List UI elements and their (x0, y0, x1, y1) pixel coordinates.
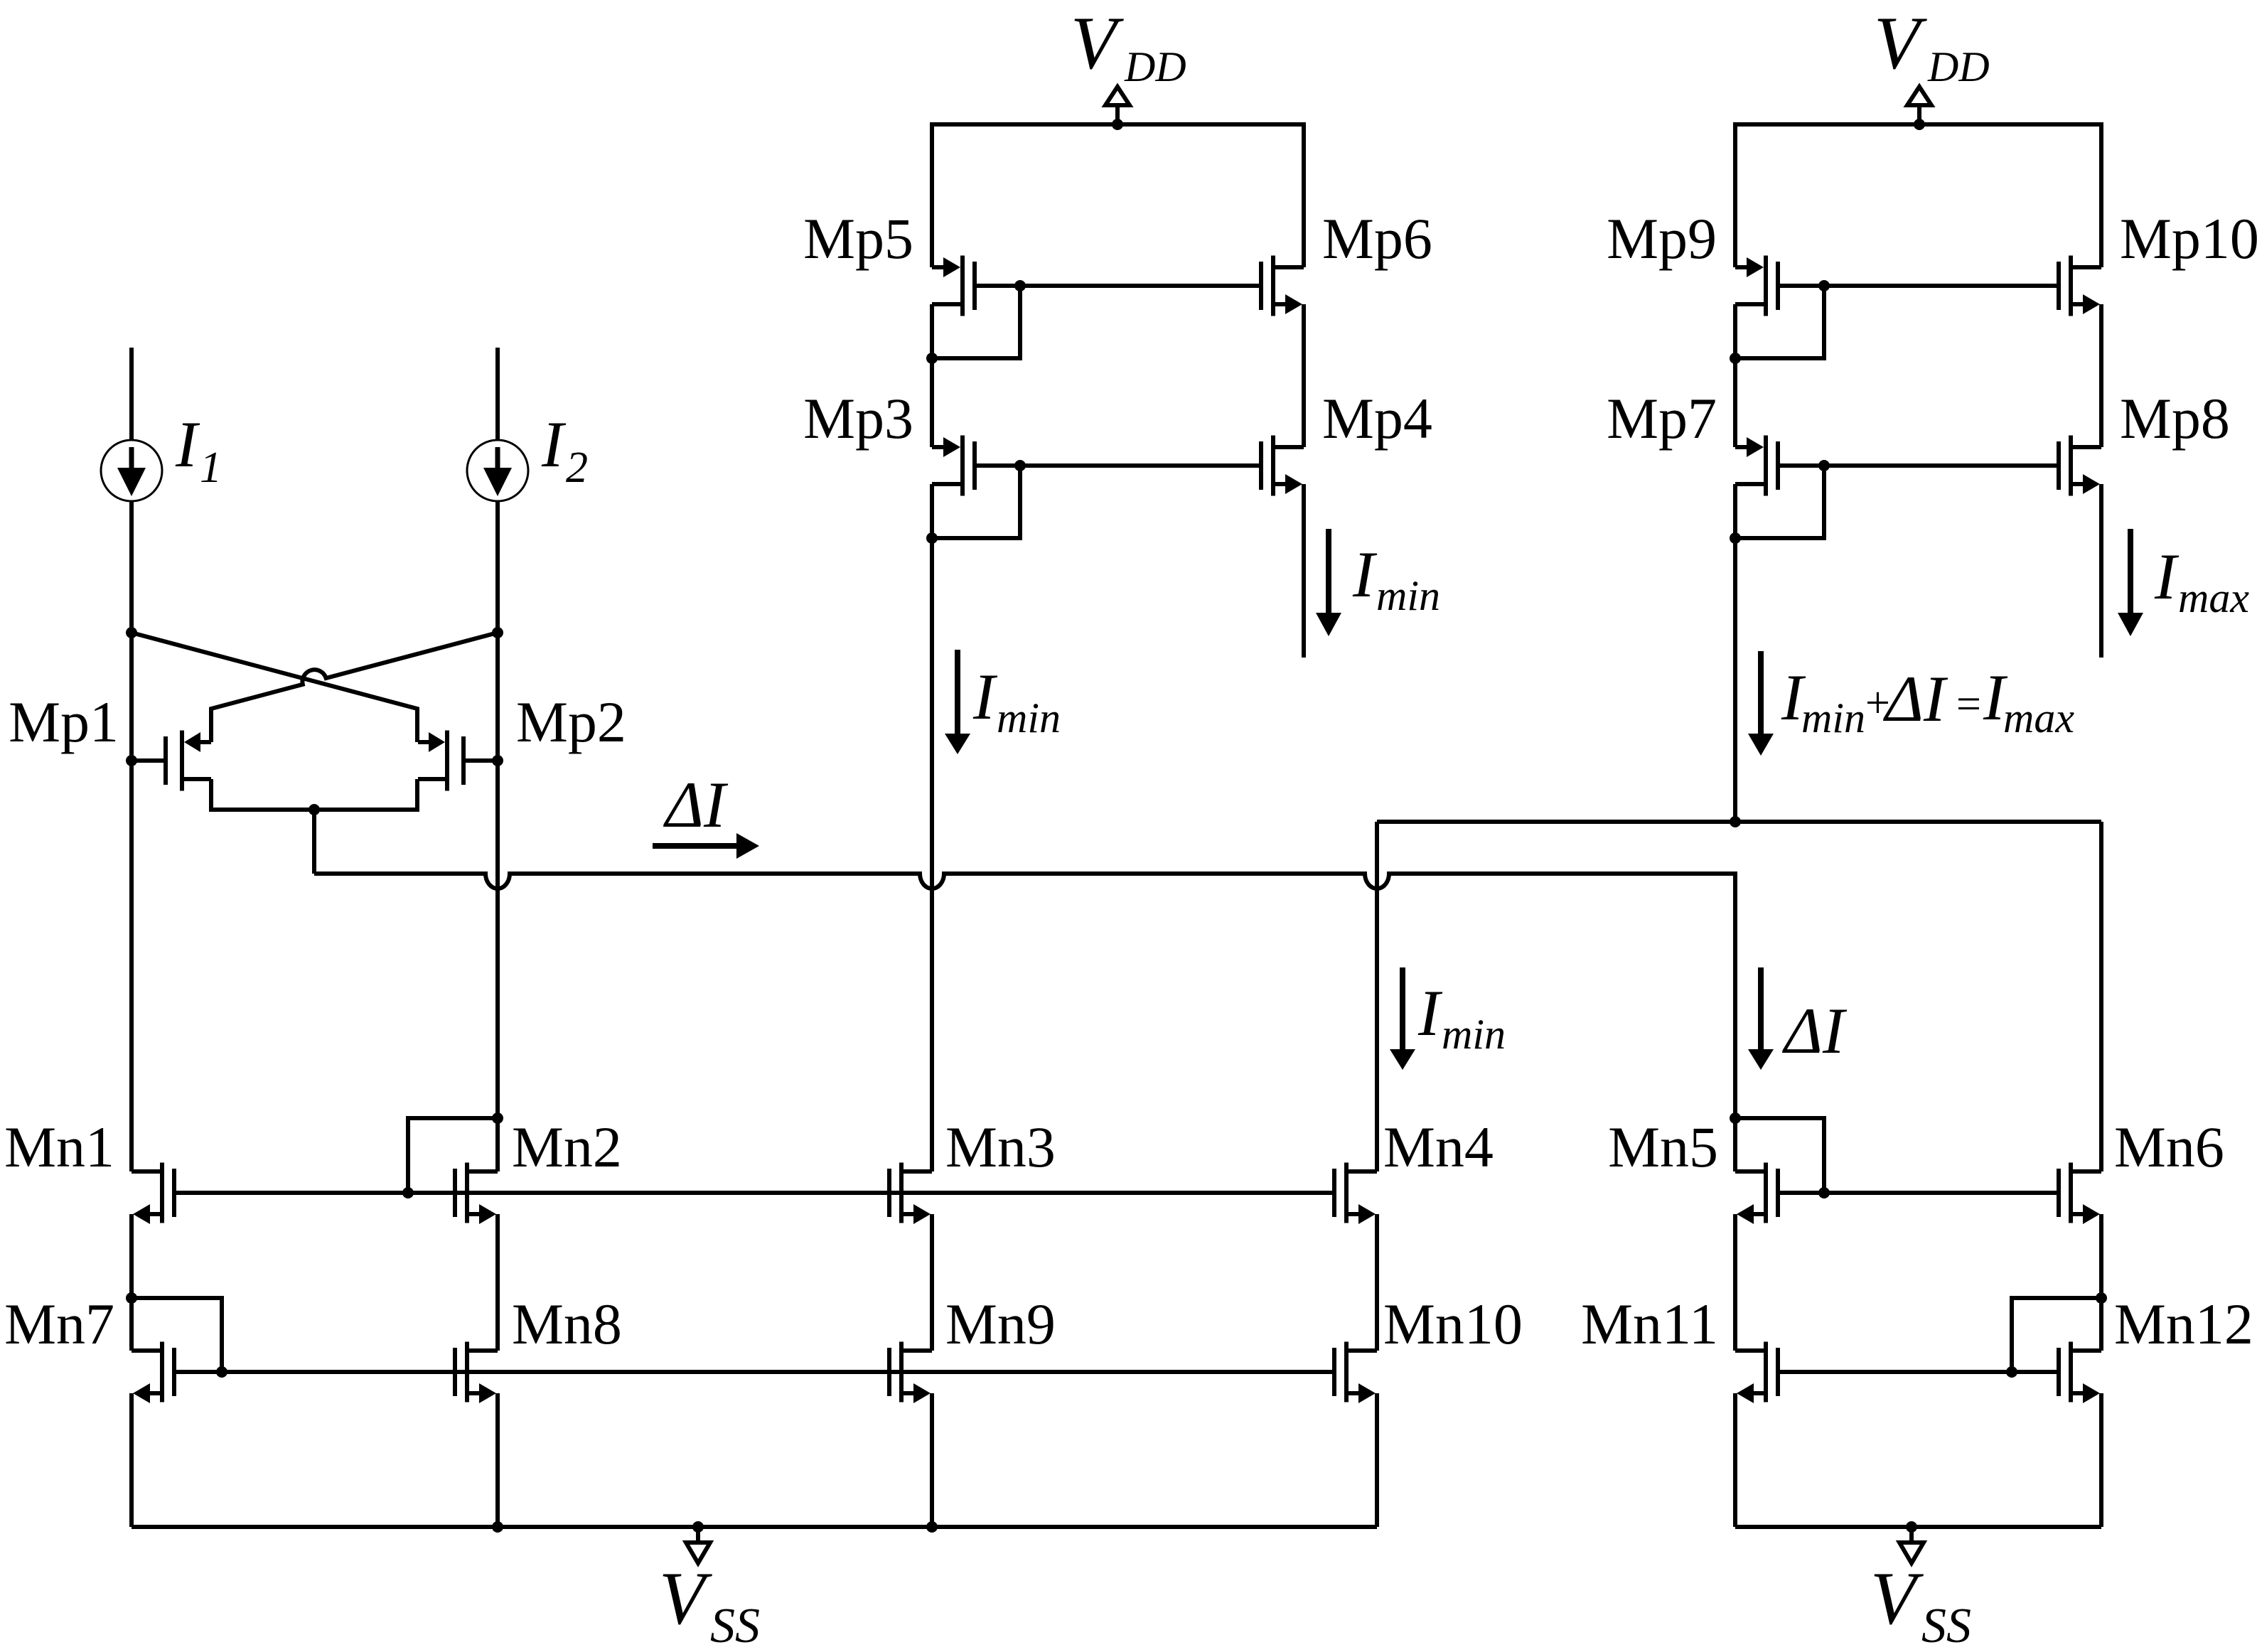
junction dot Imax bus / Mp7 drain (1730, 816, 1741, 827)
svg-text:ΔI: ΔI (1781, 994, 1848, 1067)
transistor Mn1 (132, 1163, 174, 1225)
svg-text:V: V (1874, 1, 1927, 85)
wire Mp7 drain to Imax bus (1733, 484, 1737, 822)
wire Mn11-Mn12 gate bus (1778, 1370, 2059, 1374)
junction dot VDD right (1914, 119, 1925, 130)
label VDD middle (1071, 1, 1186, 90)
label I1 (175, 408, 222, 492)
svg-text:Mn6: Mn6 (2114, 1115, 2224, 1179)
junction dot Mp7 drain (1730, 532, 1741, 544)
wire Mn11 source to VSS rail (1733, 1393, 1737, 1527)
transistor Mn11 (1735, 1342, 1778, 1404)
svg-text:Mp6: Mp6 (1322, 206, 1432, 271)
svg-text:SS: SS (1921, 1599, 1971, 1652)
svg-text:Mp9: Mp9 (1607, 206, 1717, 271)
junction dot Mn2 gate bus (402, 1187, 414, 1198)
svg-text:1: 1 (200, 444, 222, 492)
svg-text:Mn12: Mn12 (2114, 1292, 2253, 1356)
wire Mp7 diode connection (1735, 466, 1824, 538)
svg-text:Mp4: Mp4 (1322, 386, 1432, 451)
power VDD rail (right) (1735, 124, 2101, 267)
wire Mn2 source to Mn8 drain (495, 1214, 500, 1351)
svg-text:Mn9: Mn9 (945, 1292, 1056, 1356)
transistor Mn9 (889, 1342, 932, 1404)
wire I1 column down to Mn1 drain (129, 501, 134, 1171)
svg-text:Mp1: Mp1 (9, 690, 119, 754)
transistor Mp4 (1261, 436, 1304, 496)
wire Mn5 source to Mn11 drain (1733, 1214, 1737, 1351)
wire Imax bus drop to Mn4 (1375, 822, 1379, 1171)
wire Mp5 diode connection (932, 286, 1020, 358)
transistor Mp2 (418, 731, 498, 791)
label VSS right (1870, 1557, 1971, 1652)
power VDD symbol (right) (1907, 87, 1931, 124)
junction dot Mn12 diode (2096, 1292, 2107, 1304)
arrow Imin at Mn4 (1390, 967, 1415, 1070)
svg-text:Mn7: Mn7 (4, 1292, 114, 1356)
svg-text:Mn5: Mn5 (1608, 1115, 1718, 1179)
svg-text:=: = (1953, 680, 1983, 729)
arrow Imin at Mp4 (1316, 529, 1341, 636)
wire Mp6 drain to Mp4 source (1302, 304, 1306, 447)
wire Mn3 source to Mn9 drain (930, 1214, 934, 1351)
label Imin middle (972, 660, 1061, 741)
wire Mp7-Mp8 gate bus (1778, 463, 2059, 468)
transistor Mp5 (932, 256, 975, 316)
transistor Mp1 (132, 731, 211, 791)
junction dot Mn5 drain (1730, 1112, 1741, 1124)
junction dot Mn5 gate bus (1818, 1187, 1830, 1198)
svg-text:Mn3: Mn3 (945, 1115, 1056, 1179)
label I2 (541, 408, 588, 492)
arrow Imax (2118, 529, 2143, 636)
transistor Mn4 (1334, 1163, 1377, 1225)
wire Mn12 diode connection (2012, 1298, 2101, 1372)
svg-text:Mn11: Mn11 (1581, 1292, 1718, 1356)
wire Mn1 source to Mn7 drain (129, 1214, 134, 1351)
svg-text:I: I (541, 408, 567, 481)
svg-text:Mn1: Mn1 (4, 1115, 114, 1179)
label Imin at Mp4 (1352, 538, 1440, 619)
wire Mp1 source to I2 node (with hop) (211, 633, 498, 742)
svg-text:V: V (1071, 1, 1124, 85)
transistor Mp8 (2059, 436, 2101, 496)
wire VSS rail left (132, 1525, 1377, 1529)
wire Mn10 source to VSS rail (1375, 1393, 1379, 1527)
junction dot Mn7 diode (126, 1292, 137, 1304)
junction dot VDD middle (1112, 119, 1123, 130)
svg-text:Mp10: Mp10 (2120, 206, 2257, 271)
wire Mn2 diode connection (408, 1118, 498, 1193)
transistor Mp10 (2059, 256, 2101, 316)
arrow Delta-I (653, 833, 759, 859)
wire Mp3 diode connection (932, 466, 1020, 538)
wire Imin column Mp3 to Mn3 (930, 484, 934, 1171)
current source I2 (467, 440, 528, 501)
svg-text:DD: DD (1927, 43, 1990, 90)
junction dot Mp5 drain (926, 353, 938, 364)
svg-text:V: V (659, 1557, 712, 1640)
svg-text:min: min (997, 694, 1061, 741)
arrow Imin+DI=Imax (1748, 651, 1774, 756)
transistor Mp7 (1735, 436, 1778, 496)
wire Mp2 drain to join (314, 779, 417, 810)
wire Mn5-Mn6 gate bus (1778, 1191, 2059, 1195)
wire Mn5 diode connection (1735, 1118, 1824, 1193)
wire Mp1 drain to join (211, 779, 314, 810)
ground VSS symbol right (1899, 1527, 1924, 1563)
wire Mn9 source to VSS rail (930, 1393, 934, 1527)
wire Mp9-Mp10 gate bus (1778, 284, 2059, 288)
svg-text:Mn2: Mn2 (512, 1115, 622, 1179)
wire I2 column down to Mn2 drain (495, 501, 500, 1171)
wire Mp5-Mp6 gate bus (975, 284, 1261, 288)
label Imin+DI=Imax (1781, 661, 2074, 741)
wire Mp3-Mp4 gate bus (975, 463, 1261, 468)
label Delta-I with arrow (663, 768, 729, 841)
current source I1 (101, 440, 162, 501)
svg-text:2: 2 (566, 444, 588, 492)
svg-text:max: max (2178, 574, 2249, 621)
wire Mn12 source to VSS rail (2099, 1393, 2103, 1527)
junction dot VSS stub right (1906, 1521, 1917, 1533)
svg-text:Mp2: Mp2 (516, 690, 626, 754)
svg-text:SS: SS (710, 1599, 760, 1652)
label VDD right (1874, 1, 1990, 90)
wire Mp10 drain to Mp8 source (2099, 304, 2103, 447)
wire Imax bus drop to Mn6 (2099, 822, 2103, 1171)
node dot Mp2 gate (492, 755, 503, 766)
wire Mp2 source to I1 node (132, 633, 417, 742)
wire I2 input stub (495, 348, 500, 440)
svg-text:I: I (175, 408, 200, 481)
wire Mn7-Mn10 gate bus (174, 1370, 1334, 1374)
transistor Mp6 (1261, 256, 1304, 316)
wire I1 input stub (129, 348, 134, 440)
svg-text:Mn4: Mn4 (1383, 1115, 1494, 1179)
wire VSS rail right (1735, 1525, 2101, 1529)
svg-text:min: min (1442, 1011, 1506, 1058)
wire Mp8 drain output Imax (2099, 484, 2103, 658)
svg-text:V: V (1870, 1557, 1924, 1640)
arrow Imin middle (945, 650, 970, 754)
svg-text:Mn10: Mn10 (1383, 1292, 1523, 1356)
junction dot drain join (309, 804, 320, 815)
wire Mn7 source to VSS rail (129, 1393, 134, 1527)
junction dot Mp7 gate node (1818, 460, 1830, 471)
junction dot Mn9 rail (926, 1521, 938, 1533)
power VDD symbol (middle) (1105, 87, 1130, 124)
wire Mn1-Mn4 gate bus (174, 1191, 1334, 1195)
junction dot Mp9 gate node (1818, 280, 1830, 291)
transistor Mp3 (932, 436, 975, 496)
svg-text:Mp8: Mp8 (2120, 386, 2230, 451)
wire Delta-I bus with hops, down to Mn5 (314, 874, 1735, 1171)
transistor Mn3 (889, 1163, 932, 1225)
wire join drop to Delta-I bus (312, 810, 316, 874)
svg-text:min: min (1376, 572, 1440, 619)
svg-text:I: I (2154, 540, 2180, 613)
transistor Mn10 (1334, 1342, 1377, 1404)
junction dot Mp3 gate node (1014, 460, 1026, 471)
svg-text:Mn8: Mn8 (512, 1292, 622, 1356)
junction dot Mn12 gate bus (2006, 1366, 2017, 1378)
wire Mn7 diode connection (132, 1298, 222, 1372)
junction dot Mn7 gate bus (216, 1366, 227, 1378)
node dot I2/cross-couple (492, 627, 503, 638)
wire Mp4 drain output (1302, 484, 1306, 658)
svg-text:I: I (1352, 538, 1378, 611)
transistor Mn6 (2059, 1163, 2101, 1225)
junction dot Mp3 drain (926, 532, 938, 544)
wire Mn8 source to VSS rail (495, 1393, 500, 1527)
junction dot Mn2 drain (492, 1112, 503, 1124)
transistor Mn2 (455, 1163, 498, 1225)
svg-text:Mp3: Mp3 (803, 386, 913, 451)
svg-text:I: I (1417, 977, 1443, 1049)
wire Mp9 diode connection (1735, 286, 1824, 358)
transistor Mn12 (2059, 1342, 2101, 1404)
svg-text:Mp5: Mp5 (803, 206, 913, 271)
wire Mn6 source to Mn12 drain (2099, 1214, 2103, 1351)
svg-text:max: max (2003, 694, 2074, 741)
wire Mn4 source to Mn10 drain (1375, 1214, 1379, 1351)
node dot Mp1 gate (126, 755, 137, 766)
svg-text:ΔI: ΔI (663, 768, 729, 841)
wire Imax bus (1377, 820, 2101, 824)
label Imax (2154, 540, 2249, 621)
label VSS left (659, 1557, 760, 1652)
svg-text:Mp7: Mp7 (1607, 386, 1717, 451)
transistor Mp9 (1735, 256, 1778, 316)
wire Mp5 drain to Mp3 source (930, 304, 934, 447)
node dot I1/cross-couple (126, 627, 137, 638)
junction dot Mn8 rail (492, 1521, 503, 1533)
junction dot Mp9 drain (1730, 353, 1741, 364)
svg-text:min: min (1801, 694, 1865, 741)
arrow Delta-I at Mn5 (1748, 967, 1774, 1070)
svg-text:ΔI: ΔI (1882, 663, 1948, 735)
power VDD rail (middle) (932, 124, 1304, 267)
ground VSS symbol left (686, 1527, 710, 1563)
svg-text:DD: DD (1124, 43, 1186, 90)
junction dot VSS stub left (692, 1521, 704, 1533)
transistor Mn8 (455, 1342, 498, 1404)
transistor Mn5 (1735, 1163, 1778, 1225)
transistor Mn7 (132, 1342, 174, 1404)
wire Mp9 drain to Mp7 source (1733, 304, 1737, 447)
svg-text:I: I (972, 660, 998, 733)
junction dot Mp5 gate node (1014, 280, 1026, 291)
label Imin at Mn4 (1417, 977, 1506, 1058)
